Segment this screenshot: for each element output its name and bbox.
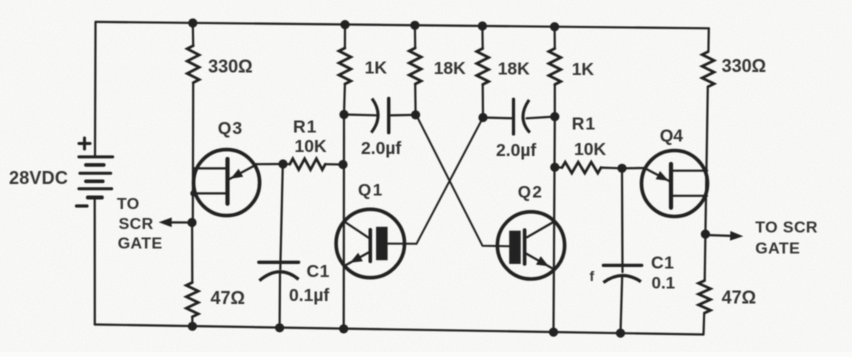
resistor R1 right 10K horizontal bbox=[562, 162, 601, 173]
wire Q3 emitter to R1 left node bbox=[255, 163, 283, 165]
wire 1K left to node A bbox=[343, 84, 346, 115]
wire battery negative lead bbox=[94, 198, 96, 325]
svg-text:1K: 1K bbox=[572, 59, 595, 79]
wire node A to coupling cap left bbox=[344, 113, 376, 116]
svg-text:TO: TO bbox=[117, 196, 140, 213]
resistor R18K left 18K bbox=[409, 48, 421, 84]
transistor Q3 collector lead bbox=[194, 167, 228, 169]
node C junction bbox=[478, 113, 487, 122]
label 28VDC bbox=[9, 168, 68, 188]
svg-text:Q3: Q3 bbox=[218, 118, 243, 138]
label f C1 right bbox=[590, 268, 595, 284]
transistor Q2 thin bar bbox=[523, 230, 527, 264]
label 2.0uf right bbox=[496, 140, 536, 160]
capacitor C1 left plate bottom curved bbox=[259, 272, 298, 281]
label TO SCR right bbox=[755, 219, 818, 236]
node ground rail C1 left bbox=[275, 323, 284, 332]
node D junction bbox=[550, 112, 559, 121]
svg-text:R1: R1 bbox=[293, 116, 317, 136]
node TO SCR GATE right junction bbox=[701, 230, 710, 239]
label Q2 bbox=[518, 183, 544, 202]
svg-text:18K: 18K bbox=[498, 59, 530, 79]
wire 47ohm left to ground rail bbox=[191, 317, 193, 327]
transistor Q2 circle bbox=[497, 212, 564, 279]
transistor Q4 base lead bbox=[673, 195, 708, 197]
node top rail junction 1K left bbox=[340, 20, 349, 29]
resistor R47 right 47ohm bbox=[699, 281, 711, 313]
svg-text:Q4: Q4 bbox=[660, 126, 684, 146]
transistor Q2 collector lead bbox=[527, 222, 554, 238]
svg-text:2.0µf: 2.0µf bbox=[496, 140, 536, 160]
resistor R18K right 18K bbox=[477, 49, 489, 85]
node top rail junction 330 left bbox=[188, 18, 197, 27]
wire SCR node to 47ohm right bbox=[704, 234, 707, 281]
node top rail junction 18K right bbox=[478, 21, 487, 30]
label 0.1uf left bbox=[289, 285, 329, 305]
label SCR left bbox=[119, 216, 154, 233]
svg-text:330Ω: 330Ω bbox=[208, 57, 252, 77]
label C1 right bbox=[651, 252, 674, 272]
label R1 right bbox=[572, 114, 596, 134]
wire top supply rail bbox=[96, 22, 709, 28]
node ground rail Q2 emitter bbox=[549, 328, 558, 337]
label 18K left bbox=[434, 58, 466, 78]
node R1 left east junction bbox=[338, 160, 347, 169]
wire Q2 collector-emitter vertical bbox=[554, 117, 555, 333]
svg-text:Q2: Q2 bbox=[518, 183, 544, 202]
label 330ohm left bbox=[208, 57, 252, 77]
transistor Q3 circle bbox=[194, 150, 260, 216]
label 1K right bbox=[572, 59, 595, 79]
resistor R47 left 47ohm bbox=[186, 283, 198, 317]
wire R1 right lead east bbox=[601, 167, 622, 170]
capacitor coupling right curved plate bbox=[523, 100, 530, 133]
label GATE left bbox=[118, 235, 163, 252]
svg-text:2.0µf: 2.0µf bbox=[361, 138, 401, 158]
label Q1 bbox=[358, 181, 384, 200]
transistor Q1 emitter lead with arrow bbox=[344, 253, 368, 267]
wire R1 node down to C1 left bbox=[280, 164, 283, 269]
node top rail junction 1K right bbox=[550, 22, 559, 31]
wire R1 left lead bbox=[283, 163, 290, 165]
node R1 right east junction bbox=[617, 164, 626, 173]
node R1 left west junction bbox=[278, 159, 287, 168]
node B junction bbox=[411, 110, 420, 119]
svg-text:10K: 10K bbox=[295, 136, 327, 156]
wire R1 right lead west bbox=[555, 166, 562, 169]
transistor Q4 collector lead bbox=[673, 170, 708, 172]
battery plus sign bbox=[79, 138, 90, 149]
wire 18K right to node C bbox=[482, 85, 484, 118]
transistor Q4 base bar bbox=[669, 164, 673, 208]
wire SCR node to 47ohm left bbox=[191, 223, 193, 283]
wire 18K left top bbox=[414, 25, 417, 48]
label 330ohm right bbox=[722, 56, 766, 76]
capacitor C1 right plate top bbox=[603, 264, 641, 267]
wire cross coupling node B to Q2 base bbox=[416, 115, 509, 247]
resistor R1 left 10K horizontal bbox=[290, 159, 326, 170]
wire Q1 collector-emitter vertical bbox=[343, 115, 345, 329]
battery minus sign bbox=[77, 204, 88, 207]
transistor Q2 base slab bbox=[509, 231, 521, 264]
node A junction bbox=[339, 110, 348, 119]
wire C1 left to ground rail bbox=[279, 273, 282, 328]
transistor Q2 emitter lead with arrow bbox=[526, 254, 554, 270]
transistor Q3 emitter lead with arrow bbox=[229, 164, 257, 179]
svg-text:330Ω: 330Ω bbox=[722, 56, 766, 76]
wire 1K right top bbox=[553, 27, 555, 49]
wire 18K left to node B bbox=[414, 84, 417, 115]
svg-text:1K: 1K bbox=[365, 58, 388, 78]
label 47ohm left bbox=[211, 288, 245, 308]
wire battery positive lead bbox=[94, 22, 97, 157]
transistor Q3 base bar bbox=[225, 159, 229, 204]
wire 47ohm right to ground rail bbox=[702, 313, 705, 335]
node TO SCR GATE left junction bbox=[187, 218, 196, 227]
label 10K left bbox=[295, 136, 327, 156]
svg-text:SCR: SCR bbox=[119, 216, 154, 233]
resistor R1K right 1K bbox=[549, 49, 561, 85]
node ground rail 47ohm left bbox=[188, 322, 197, 331]
svg-text:Q1: Q1 bbox=[358, 181, 384, 200]
wire coupling cap right to node D bbox=[527, 117, 555, 119]
arrow to SCR gate right bbox=[705, 231, 743, 241]
svg-text:18K: 18K bbox=[434, 58, 466, 78]
wire 330ohm right to SCR node bbox=[705, 87, 707, 234]
transistor Q4 emitter lead with arrow bbox=[645, 168, 670, 181]
svg-text:C1: C1 bbox=[307, 261, 330, 281]
battery B1 28VDC bbox=[79, 157, 113, 198]
label 10K right bbox=[574, 139, 606, 159]
capacitor C1 left plate top bbox=[259, 261, 299, 264]
wire node C to coupling cap right bbox=[483, 116, 514, 119]
svg-text:GATE: GATE bbox=[755, 241, 800, 258]
svg-text:TO SCR: TO SCR bbox=[755, 219, 818, 236]
node Q3 lower lead junction bbox=[190, 190, 196, 196]
arrow to SCR gate left bbox=[159, 218, 192, 228]
label Q3 bbox=[218, 118, 243, 138]
node R1 right west junction bbox=[550, 163, 559, 172]
label 0.1 right bbox=[652, 274, 676, 293]
wire cross coupling node C to Q1 base bbox=[388, 118, 483, 244]
wire R1 right node down to C1 right bbox=[621, 168, 624, 272]
label GATE right bbox=[755, 241, 800, 258]
resistor R330 left 330ohm bbox=[187, 46, 199, 83]
label 18K right bbox=[498, 59, 530, 79]
wire C1 right to ground rail bbox=[621, 276, 623, 334]
transistor Q1 collector lead bbox=[344, 222, 370, 239]
svg-text:10K: 10K bbox=[574, 139, 606, 159]
wire 18K right top bbox=[481, 26, 484, 49]
node ground rail Q1 emitter bbox=[339, 324, 348, 333]
label 47ohm right bbox=[722, 288, 756, 308]
capacitor coupling left straight plate bbox=[387, 99, 390, 133]
transistor Q4 circle bbox=[642, 151, 708, 217]
wire 330ohm left top bbox=[192, 23, 195, 46]
label TO left bbox=[117, 196, 140, 213]
label R1 left bbox=[293, 116, 317, 136]
wire 1K right to node D bbox=[554, 85, 556, 117]
label 1K left bbox=[365, 58, 388, 78]
transistor Q3 base lead bbox=[194, 192, 228, 194]
svg-text:47Ω: 47Ω bbox=[211, 288, 245, 308]
svg-text:28VDC: 28VDC bbox=[9, 168, 68, 188]
resistor R330 right 330ohm bbox=[702, 52, 714, 87]
node top rail junction 18K left bbox=[410, 21, 419, 30]
svg-text:47Ω: 47Ω bbox=[722, 288, 756, 308]
transistor Q1 base slab bbox=[376, 227, 388, 260]
label C1 left bbox=[307, 261, 330, 281]
svg-text:GATE: GATE bbox=[118, 235, 163, 252]
resistor R1K left 1K bbox=[339, 48, 351, 84]
svg-text:R1: R1 bbox=[572, 114, 596, 134]
transistor Q1 circle bbox=[336, 209, 404, 277]
wire R1 left to Q1 collector line bbox=[325, 163, 343, 166]
transistor Q1 thin bar bbox=[368, 230, 372, 261]
wire coupling cap left to node B bbox=[389, 114, 416, 117]
capacitor C1 right plate bottom curved bbox=[603, 275, 641, 282]
wire R1 right to Q4 emitter bbox=[622, 167, 646, 170]
label 2.0uf left bbox=[361, 138, 401, 158]
capacitor coupling right straight plate bbox=[512, 99, 515, 134]
capacitor coupling left curved plate bbox=[371, 99, 378, 133]
wire bottom ground rail bbox=[95, 325, 704, 335]
svg-text:0.1: 0.1 bbox=[652, 274, 676, 293]
wire 330ohm left to SCR node bbox=[192, 83, 195, 223]
label Q4 bbox=[660, 126, 684, 146]
wire 1K left top bbox=[344, 25, 346, 48]
node ground rail C1 right bbox=[616, 329, 625, 338]
svg-text:0.1µf: 0.1µf bbox=[289, 285, 329, 305]
wire 330ohm right top bbox=[707, 28, 710, 51]
svg-text:C1: C1 bbox=[651, 252, 674, 272]
svg-text:f: f bbox=[590, 268, 595, 284]
